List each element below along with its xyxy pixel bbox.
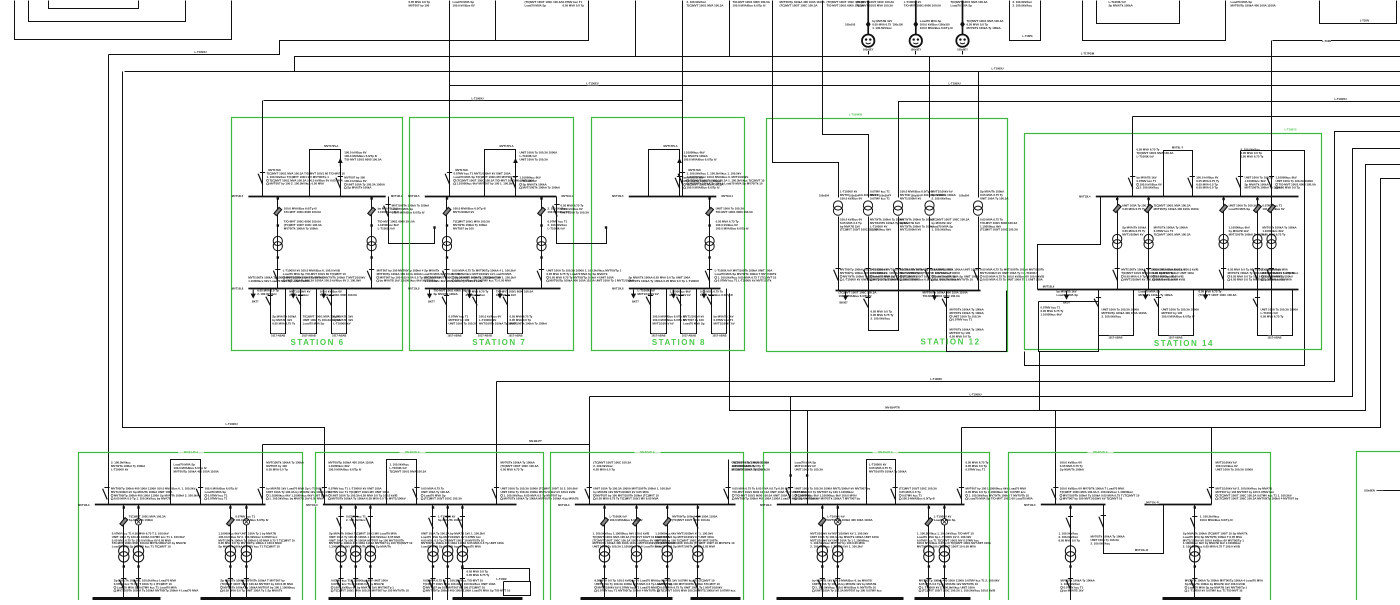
switch station B1 tie switch (196, 489, 201, 500)
feeder arrow station 7 tie arrow (515, 159, 517, 167)
switch station B2 incomer 1 switch (320, 489, 325, 500)
switch station B4 incomer 2 switch (957, 489, 962, 500)
wire station 12 col 1 down (838, 217, 840, 291)
svg-text:100.0 MVA/Bus 6.0/Tp 6/: 100.0 MVA/Bus 6.0/Tp 6/ (235, 518, 268, 522)
wire top-right loop inner (1097, 1, 1180, 24)
svg-text:1017-ABAB: 1017-ABAB (478, 333, 492, 337)
switch station 7 f2 LV switch (537, 271, 542, 282)
svg-text:L-T1000U: L-T1000U (930, 377, 942, 381)
wire B5 bay 1070 drop (1070, 505, 1072, 601)
svg-text:100.0 MVA/Bus 6.0/Tp 6/: 100.0 MVA/Bus 6.0/Tp 6/ (610, 518, 643, 522)
svg-text:MV70/Tk 100kA Ty 100kA 6.05: MV70/Tk 100kA Ty 100kA 6.05 MVA 0.0 Tp L… (629, 279, 699, 283)
wire station B3 bay 667 drop (667, 505, 669, 601)
svg-text:0.07MV kcc T1: 0.07MV kcc T1 (208, 497, 228, 501)
transformer station B3 bay 667 trafo (662, 546, 672, 556)
svg-text:MV-B5-PLA: MV-B5-PLA (1093, 450, 1108, 454)
junction station B1 bay 123 tap (123, 506, 125, 508)
switch station B2 incomer 2 switch (492, 489, 497, 500)
svg-text:L-T1000U kV: L-T1000U kV (333, 321, 350, 325)
net label station 12 feed lbl 3 (879, 194, 890, 197)
net label station 7 load 1 name (429, 300, 435, 303)
junction station 6 f2 joint (370, 224, 372, 226)
svg-text:MVT00/Tp 100kA 400 100A 1100A: MVT00/Tp 100kA 400 100A 1100A Load70 MVA… (426, 589, 511, 593)
bus station 14 MV bus (1093, 196, 1299, 198)
net label station 6 lv bus label (238, 287, 249, 290)
junction station B2 bay 462 joint (461, 565, 463, 567)
switch station 12 col 4 switch (925, 270, 930, 281)
net label L-85 (949, 82, 961, 85)
svg-text:UNIT 100A Ty 100.3A 1.10000: UNIT 100A Ty 100.3A 1.10000kcc 6kV Load7… (593, 544, 662, 548)
svg-text:MVT/100Tk 100kA Ty 100kA: MVT/100Tk 100kA Ty 100kA (523, 186, 562, 190)
junction station 8 f2 tap (708, 197, 710, 199)
wire line L-A step (109, 1, 589, 55)
wire tap x261 to B1 (262, 445, 264, 505)
wire station 14 tie loop 1 (1164, 151, 1193, 197)
switch station B4 tie switch (891, 489, 896, 500)
wire station 12 feed 3 (899, 102, 900, 198)
svg-text:MVT10L5: MVT10L5 (232, 194, 244, 198)
svg-text:100.0 MVA/Bus 6.0/Tp 6/: 100.0 MVA/Bus 6.0/Tp 6/ (687, 186, 720, 190)
svg-text:MVT00/Tp 100kA 400 100A 1100A: MVT00/Tp 100kA 400 100A 1100A (1154, 207, 1200, 211)
wire feeder drop x107.5 to station B1 (108, 55, 110, 505)
svg-text:L-T1000U: L-T1000U (991, 67, 1003, 71)
junction station B2 bay 370 joint (369, 565, 371, 567)
switch station 6 U-bay 3 switch (327, 297, 332, 306)
svg-text:2. 100.0kV/kcc: 2. 100.0kV/kcc (466, 293, 486, 297)
svg-text:L-T1000U: L-T1000U (969, 393, 981, 397)
junction station 6 f1 joint (277, 224, 279, 226)
wire station B2 tie loop (387, 460, 417, 505)
net label station 7 lv bus label (414, 287, 425, 290)
net label B5 aux lbl (1136, 548, 1148, 551)
svg-text:MVT8L-7: MVT8L-7 (1172, 145, 1184, 149)
svg-text:Sp MVA/Tk 100kA: Sp MVA/Tk 100kA (1060, 467, 1085, 471)
switch station 6 U-bay 1 switch (266, 297, 271, 306)
wire station B5 bay 1194 drop (1194, 505, 1196, 601)
load arrow station 14 load 2 (1145, 291, 1147, 296)
station B5 lv busbar stub (1163, 597, 1241, 601)
junction station 7 f2 joint2 (540, 256, 542, 258)
wire station B3 bay 604 drop (604, 505, 606, 601)
net label station 7 incomer name (456, 169, 467, 172)
switch station 6 f1 LV switch (273, 271, 278, 282)
svg-text:MVT1/100kV kV: MVT1/100kV kV (653, 321, 674, 325)
svg-text:Load70 MVA Sp MVT/100Tk 100k: Load70 MVA Sp MVT/100Tk 100kA 0.05 MVA (655, 544, 716, 548)
wire station 14 U-bay 3 (1258, 290, 1293, 336)
svg-text:MVT007 by 100 2. 100.0kV/kcc: MVT007 by 100 2. 100.0kV/kcc 0.05 MVA (270, 182, 325, 186)
net label station 8 bus label R (716, 194, 727, 197)
svg-text:T(C)MVT 100/1 MVA 100.3A: T(C)MVT 100/1 MVA 100.3A (687, 3, 725, 7)
switch station B4 bay 944 lv switch (940, 580, 945, 590)
transformer station B1 bay 246 trafo (241, 546, 251, 556)
wire station B4 bay 837 drop (837, 505, 839, 601)
junction station 6 f2 joint2 (370, 256, 372, 258)
svg-text:MV-B4-PLA: MV-B4-PLA (878, 450, 893, 454)
svg-text:L-T1000U kV: L-T1000U kV (1137, 154, 1154, 158)
bus station B5 MV bus (1037, 504, 1106, 506)
switch station 12 U2 switch (942, 299, 947, 308)
bus station 8 MV bus (625, 196, 721, 198)
svg-text:MVT17G8: MVT17G8 (268, 168, 281, 172)
svg-text:0.07MV kcc T1 MVT00/Tp 100kA: 0.07MV kcc T1 MVT00/Tp 100kA 4 MV70/Tk 1… (598, 589, 661, 593)
svg-text:100.0 MVA/Bus 6.0/Tp 6/: 100.0 MVA/Bus 6.0/Tp 6/ (392, 210, 425, 214)
wire bus L-55 (295, 57, 1400, 72)
wire station 12 U-bay 2 box (947, 291, 1007, 352)
net label station 14 U3 n (1268, 336, 1282, 339)
station outline station B3 (551, 453, 744, 605)
bus station B4 MV bus (773, 504, 965, 506)
svg-text:0.07MV kcc T1: 0.07MV kcc T1 (966, 467, 986, 471)
net label station 8 load 1 name (633, 300, 639, 303)
svg-text:UNIT 100A Ty 100.3A: UNIT 100A Ty 100.3A (520, 157, 549, 161)
wire station B1 bay 246 drop (246, 505, 248, 601)
station outline station 8 (592, 118, 745, 351)
svg-text:L-T100KW: L-T100KW (849, 112, 863, 116)
junction station 14 f1 tap (1116, 198, 1118, 200)
wire station 12 col 5 down (978, 217, 980, 291)
svg-text:L-T10Pb: L-T10Pb (1022, 34, 1033, 38)
fuse station 14 f3 fuse (1220, 204, 1228, 212)
svg-text:MVT007 by 100 (TC)MVT 100/T 1: MVT007 by 100 (TC)MVT 100/T 10 0.05 MVA (917, 544, 977, 548)
svg-text:0.05 MVA 6.75 Ty: 0.05 MVA 6.75 Ty (272, 321, 295, 325)
junction station 6 f2 tap (370, 197, 372, 199)
switch station B2 bay 447 lv switch (443, 580, 448, 590)
junction station 14 f2 tap (1147, 198, 1149, 200)
junction station B4 bay 944 tap (943, 506, 945, 508)
switch station B5 incomer 2 switch (1207, 489, 1212, 500)
wire station 7 feeder 1 drop (446, 197, 448, 289)
svg-text:1017-ABAB: 1017-ABAB (302, 333, 316, 337)
svg-text:L-T1000U: L-T1000U (471, 97, 483, 101)
transformer station B3 bay 697 trafo (693, 546, 703, 556)
net label GN3 (957, 48, 968, 51)
transformer station B4 bay 944 trafo (939, 546, 949, 556)
svg-text:T/O-MVT 100/1 6000 100.0A: T/O-MVT 100/1 6000 100.0A (827, 3, 865, 7)
wire station 14 feeder 3 (1223, 197, 1225, 290)
station outline station B5 (1009, 453, 1271, 605)
svg-text:1017-ABAB: 1017-ABAB (271, 333, 285, 337)
transformer station 6 T1 (273, 236, 282, 245)
wire station 8 U-bay 3 (712, 289, 727, 334)
net label station 8 lv bus label (618, 287, 629, 290)
svg-text:T(C)MVT 100/1 MVA 100.3A: T(C)MVT 100/1 MVA 100.3A (1154, 232, 1192, 236)
wire station B2 bay 432 drop (432, 505, 434, 601)
svg-text:by MVA7B 1kV: by MVA7B 1kV (496, 293, 516, 297)
svg-text:100x004: 100x004 (849, 194, 860, 198)
svg-text:Load70 MVA Sp 0.07MV kcc T1: Load70 MVA Sp 0.07MV kcc T1 Load70 MVA (421, 544, 482, 548)
svg-text:6.05 MVA 0.0 Tp 1. 100.5kV/k: 6.05 MVA 0.0 Tp 1. 100.5kV/kcc by MVA7B (114, 497, 171, 501)
svg-text:MVT10L5: MVT10L5 (612, 194, 624, 198)
svg-text:100x100: 100x100 (893, 22, 904, 26)
svg-text:100x0EY: 100x0EY (957, 47, 968, 51)
junction station B1 bay 138 joint (137, 565, 139, 567)
transformer station 7 T1 (442, 236, 451, 245)
svg-text:1017-ABAB: 1017-ABAB (508, 333, 522, 337)
net label station 8 U-bay 3 name (713, 334, 727, 337)
svg-text:STATION 7: STATION 7 (472, 338, 526, 347)
switch station 14 U2 switch (1154, 299, 1159, 308)
svg-text:6.05 MVA 0.0 Tp: 6.05 MVA 0.0 Tp (593, 467, 615, 471)
station B4 top title (873, 449, 899, 452)
wire drop x122 long (123, 72, 325, 445)
fuse station B4 bay 822 fuse (818, 518, 826, 526)
svg-text:MVT/100Tk 100kA Ty 100kA MV: MVT/100Tk 100kA Ty 100kA MVT00/Tp 100kA … (117, 589, 199, 593)
svg-text:MVT10L1: MVT10L1 (562, 194, 574, 198)
net label station 6 load 1 name (252, 300, 258, 303)
station outline station B4 (764, 453, 990, 605)
switch station B3 bay 604 lv switch (600, 580, 605, 590)
svg-text:2. 100.0kV/kcc 0.05 MVA 6.75: 2. 100.0kV/kcc 0.05 MVA 6.75 T 100.0 kV/… (1183, 544, 1240, 548)
svg-text:MVT007 by 100: MVT007 by 100 (453, 226, 474, 230)
net label DL3 (939, 23, 950, 26)
wire station 14 feeder 1 (1117, 197, 1119, 290)
svg-text:2. 100.0kV/kcc L-T1000U kV 1: 2. 100.0kV/kcc L-T1000U kV 1. 100.5kV (810, 544, 863, 548)
junction station 6 link dot (433, 226, 435, 228)
switch station B4 bay 822 lv switch (818, 580, 823, 590)
svg-text:MVT10L3: MVT10L3 (306, 503, 318, 507)
junction station B4 bay 944 joint (943, 565, 945, 567)
svg-text:by MVA7B 1kV: by MVA7B 1kV (1064, 589, 1084, 593)
svg-text:MV70/Tk 100kA Ty 100kA 6.05: MV70/Tk 100kA Ty 100kA 6.05 MVA 0.0 Tp M… (331, 497, 405, 501)
transformer station B3 bay 636 trafo (631, 546, 641, 556)
bus B5 MV bus segment 2 (1145, 504, 1212, 506)
svg-text:STATION 8: STATION 8 (652, 338, 706, 347)
svg-text:MVT10L8: MVT10L8 (408, 287, 420, 291)
net label station 14 bus lblL (1085, 195, 1096, 198)
station outline station B1 (79, 453, 303, 605)
switch station B1 incomer 1 switch (103, 489, 108, 500)
wire station 12 col 4 down (929, 217, 931, 291)
svg-text:MVT17G8: MVT17G8 (688, 168, 701, 172)
switch station B2 bay 355 lv switch (351, 580, 356, 590)
wire station 12 col 3 down (898, 217, 900, 291)
wire station B3 bay 697 drop (697, 505, 699, 601)
wire station 14 incomer 2 (1271, 41, 1273, 336)
svg-text:Load70 MVA Sp: Load70 MVA Sp (303, 321, 325, 325)
net label station 14 load1 n (1064, 301, 1070, 304)
transformer station 14 T5 (1267, 234, 1276, 243)
feeder arrow station 8 tie arrow (679, 159, 681, 167)
svg-text:MV-B2-PT: MV-B2-PT (529, 439, 542, 443)
svg-text:100x0EY: 100x0EY (863, 47, 874, 51)
junction station 7 f1 joint (446, 224, 448, 226)
transformer B5 bay 1070 trafo (1065, 546, 1075, 556)
junction station 7 f2 joint (540, 224, 542, 226)
net label station 6 incomer name (269, 169, 280, 172)
svg-text:Load70 MVA Sp 0.07MV kcc T1: Load70 MVA Sp 0.07MV kcc T1 T(C)MVT 10 (112, 544, 171, 548)
wire riser x635 (635, 1, 637, 57)
wire station 14 aux box (1039, 302, 1099, 352)
wire machine stub 3 (962, 48, 964, 55)
switch station B2 bay 340 switch (337, 518, 342, 529)
net label GN2 (911, 48, 922, 51)
bus station 7 MV bus (421, 196, 561, 198)
net label L-100 (472, 97, 484, 100)
net label station B1 bus lbl (84, 503, 95, 506)
load arrow station 12 load 2 (934, 292, 936, 297)
switch station 7 U-bay 2 switch (473, 297, 478, 306)
svg-text:1.10000kcc 6kV Sp MVA/Tk 100k: 1.10000kcc 6kV Sp MVA/Tk 100kA Sp MVA/Tk (329, 544, 391, 548)
switch station 12 col 5 switch (974, 270, 979, 281)
wire station 6 feeder 1 drop (277, 197, 279, 289)
switch station 12 U1 switch (864, 299, 869, 308)
svg-text:Load70 MVA Sp: Load70 MVA Sp (525, 3, 547, 7)
svg-text:Sp MVA/Tk 100kA: Sp MVA/Tk 100kA (129, 518, 154, 522)
fuse station 14 f2 fuse (1145, 204, 1153, 212)
switch station 6 link switch (384, 206, 389, 217)
connector D3 (960, 21, 965, 28)
svg-text:0.05 MVA 6.75 Ty: 0.05 MVA 6.75 Ty (1261, 314, 1284, 318)
wire top-right box b (1320, 1, 1397, 24)
svg-text:L-T1000U: L-T1000U (225, 422, 237, 426)
svg-text:MVT1/100kV kV: MVT1/100kV kV (714, 321, 735, 325)
svg-text:Load70 MVA Sp: Load70 MVA Sp (1057, 293, 1079, 297)
svg-text:6.05 MVA 0.0 Tp: 6.05 MVA 0.0 Tp (563, 3, 585, 7)
net label L-55 (1082, 52, 1094, 55)
net label station 8 tie label (665, 144, 677, 147)
svg-text:2. 100.0kV/kcc: 2. 100.0kV/kcc (1102, 314, 1122, 318)
wire station 8 feeder 2 drop (709, 197, 711, 289)
svg-text:100.0 MVA/Bus 6.0/Tp 6/: 100.0 MVA/Bus 6.0/Tp 6/ (684, 157, 717, 161)
svg-text:UNIT 100A Ty 100.3A: UNIT 100A Ty 100.3A (980, 196, 1009, 200)
transformer station 12 T3 (893, 201, 902, 210)
switch station B5 bay 1194 lv switch (1190, 580, 1195, 590)
wire riser x682 (682, 1, 684, 101)
svg-text:T/O-MVT 100/1 6000 100.0A: T/O-MVT 100/1 6000 100.0A (320, 293, 358, 297)
load arrow station 8 load 1 (633, 290, 635, 295)
fuse station B3 bay 636 fuse (633, 518, 641, 526)
wire station 7 incomer (449, 86, 451, 197)
switch station 12 col 1 switch (834, 270, 839, 281)
wire station B1 bay 123 drop (123, 505, 125, 601)
svg-text:T(C)MVT 100/1 MVA 100.3A MVT: T(C)MVT 100/1 MVA 100.3A MVT1/100kV kV 0… (660, 589, 736, 593)
fuse station 14 f4 fuse (1254, 204, 1262, 212)
load arrow station 7 load 1 (429, 290, 431, 295)
transformer station 12 T5 (973, 201, 982, 210)
wire station 12 feed 2 (823, 1, 869, 198)
connector D2 (913, 21, 918, 28)
junction station B3 bay 604 tap (603, 506, 605, 508)
net label station 8 U-bay 1 name (652, 334, 666, 337)
svg-text:1. 100.5kV/kcc: 1. 100.5kV/kcc (932, 228, 952, 232)
switch station 6 tie switch (336, 178, 341, 189)
switch station 7 U-bay 1 switch (442, 297, 447, 306)
svg-text:(TC)MVT 100/T 100C 100.3A MV: (TC)MVT 100/T 100C 100.3A MVT00/Tp 100kA… (1219, 497, 1299, 501)
junction station B3 bay 636 joint (635, 565, 637, 567)
junction station B1 bay 123 joint (123, 565, 125, 567)
switch B5 bay 1070 lv switch (1066, 580, 1071, 590)
net label station B5 bus lbl (1030, 503, 1041, 506)
junction station B2 bay 340 tap (340, 506, 342, 508)
wire tap x1055 to B5 (1055, 411, 1057, 505)
junction station 7 f2 tap (540, 197, 542, 199)
svg-text:MVT10L4: MVT10L4 (1079, 194, 1091, 198)
junction station B2 bay 462 tap (461, 506, 463, 508)
wire station 6 U-bay 2 (301, 289, 317, 334)
net label station 12 feed lbl 2 (849, 194, 860, 197)
wire tap x806 to B4 (807, 411, 809, 505)
svg-text:UNIT 100A Ty 100.3A MVT007: UNIT 100A Ty 100.3A MVT007 by 100 0.07MV… (815, 589, 882, 593)
wire top-left loop middle (29, 1, 186, 22)
switch station 8 tie switch (675, 178, 680, 189)
net label DL2 (893, 23, 904, 26)
fuse station 6 F1 (274, 207, 282, 215)
net label station 6 bus label R (386, 194, 397, 197)
switch station B1 incomer 2 switch (258, 489, 263, 500)
svg-text:MV70/Tk 100kA Ty 100kA: MV70/Tk 100kA Ty 100kA (967, 26, 1002, 30)
net label station 7 U-bay 3 name (509, 334, 523, 337)
switch station B2 bay 462 switch (458, 518, 463, 529)
svg-text:MVT10L1: MVT10L1 (722, 194, 734, 198)
svg-text:MVT10L8: MVT10L8 (232, 287, 244, 291)
wire net y443 (263, 444, 590, 446)
switch station B4 bay 928 lv switch (925, 580, 930, 590)
junction station B3 bay 636 tap (635, 506, 637, 508)
switch station B3 bay 697 switch (694, 518, 699, 529)
svg-text:BK77: BK77 (428, 300, 435, 304)
switch station 7 U-bay 3 switch (503, 297, 508, 306)
transformer station B2 bay 340 trafo (336, 546, 346, 556)
station outline station 7 (410, 118, 574, 351)
wire B6 stub (1384, 490, 1400, 492)
svg-text:MV-B3-PLA: MV-B3-PLA (640, 450, 655, 454)
junction B5 bay 1070 joint (1069, 565, 1071, 567)
svg-text:6.05 MVA 0.0 Tp UNIT 100A T: 6.05 MVA 0.0 Tp UNIT 100A Ty 1 Sp MVA/Tk (223, 589, 282, 593)
svg-text:1.10000kcc 6kV: 1.10000kcc 6kV (1041, 312, 1062, 316)
wire machine feeder 3 (962, 1, 964, 35)
transformer station B1 bay 138 trafo (133, 546, 143, 556)
svg-text:T/O-MVT 100/1 6000 100.0A: T/O-MVT 100/1 6000 100.0A (716, 210, 754, 214)
switch station 6 U-bay 2 switch (296, 297, 301, 306)
net label L-A (195, 50, 207, 53)
junction station B1 bay 230 joint (229, 565, 231, 567)
svg-text:MVT/100Tk 100kA Ty 100kA: MVT/100Tk 100kA Ty 100kA (510, 321, 549, 325)
wire B5 aux loop (1104, 505, 1164, 554)
wire station 8 U-bay 1 (651, 289, 667, 334)
wire station B4 tie loop (867, 460, 896, 505)
svg-text:6.05 MVA 0.0 Tp: 6.05 MVA 0.0 Tp (1059, 538, 1081, 542)
junction station 14 f4 tap (1256, 198, 1258, 200)
wire station 12 feed 5 (978, 72, 980, 198)
net label station 6 U-bay 2 name (302, 334, 316, 337)
svg-text:1017-ABAB: 1017-ABAB (1267, 335, 1281, 339)
svg-text:STATION 6: STATION 6 (290, 338, 344, 347)
svg-text:MVT10L-P: MVT10L-P (1146, 501, 1159, 505)
junction link S7-S8 dot (605, 226, 607, 228)
wire station B2 bay 447 drop (447, 505, 449, 601)
bus station B2 MV bus (319, 504, 517, 506)
svg-text:0.05 MVA 6.75 Ty: 0.05 MVA 6.75 Ty (501, 467, 524, 471)
net label MV-410 (886, 406, 900, 409)
svg-text:(TC)MVT 100/T 100C 100.3A: (TC)MVT 100/T 100C 100.3A (1199, 293, 1238, 297)
fuse station B4 bay 928 fuse (925, 518, 933, 526)
svg-text:(TC)MVT 100/T 100C 100.3A: (TC)MVT 100/T 100C 100.3A (980, 228, 1019, 232)
wire machine feeder 1 (867, 1, 869, 35)
load arrow station 6 load 2 (292, 290, 294, 295)
station outline station 14 (1025, 134, 1322, 350)
switch B5 aux switch (1099, 517, 1104, 528)
svg-text:100.0 MVA/Bus 6.0/Tp 6/: 100.0 MVA/Bus 6.0/Tp 6/ (1162, 314, 1195, 318)
junction station B2 bay 447 joint (447, 565, 449, 567)
svg-text:MV-B1-PLA: MV-B1-PLA (184, 450, 199, 454)
svg-text:100.0 kV/Bus 6V: 100.0 kV/Bus 6V (453, 3, 475, 7)
load arrow station 8 load 2 (673, 290, 675, 295)
bus station B3 MV bus (571, 504, 736, 506)
wire station B2 bay 355 drop (355, 505, 357, 601)
svg-text:UNIT 100A Ty 100.3A 1000A: UNIT 100A Ty 100.3A 1000A (1216, 467, 1255, 471)
switch station B5 incomer 1 switch (1051, 489, 1056, 500)
svg-text:100x100: 100x100 (845, 22, 856, 26)
